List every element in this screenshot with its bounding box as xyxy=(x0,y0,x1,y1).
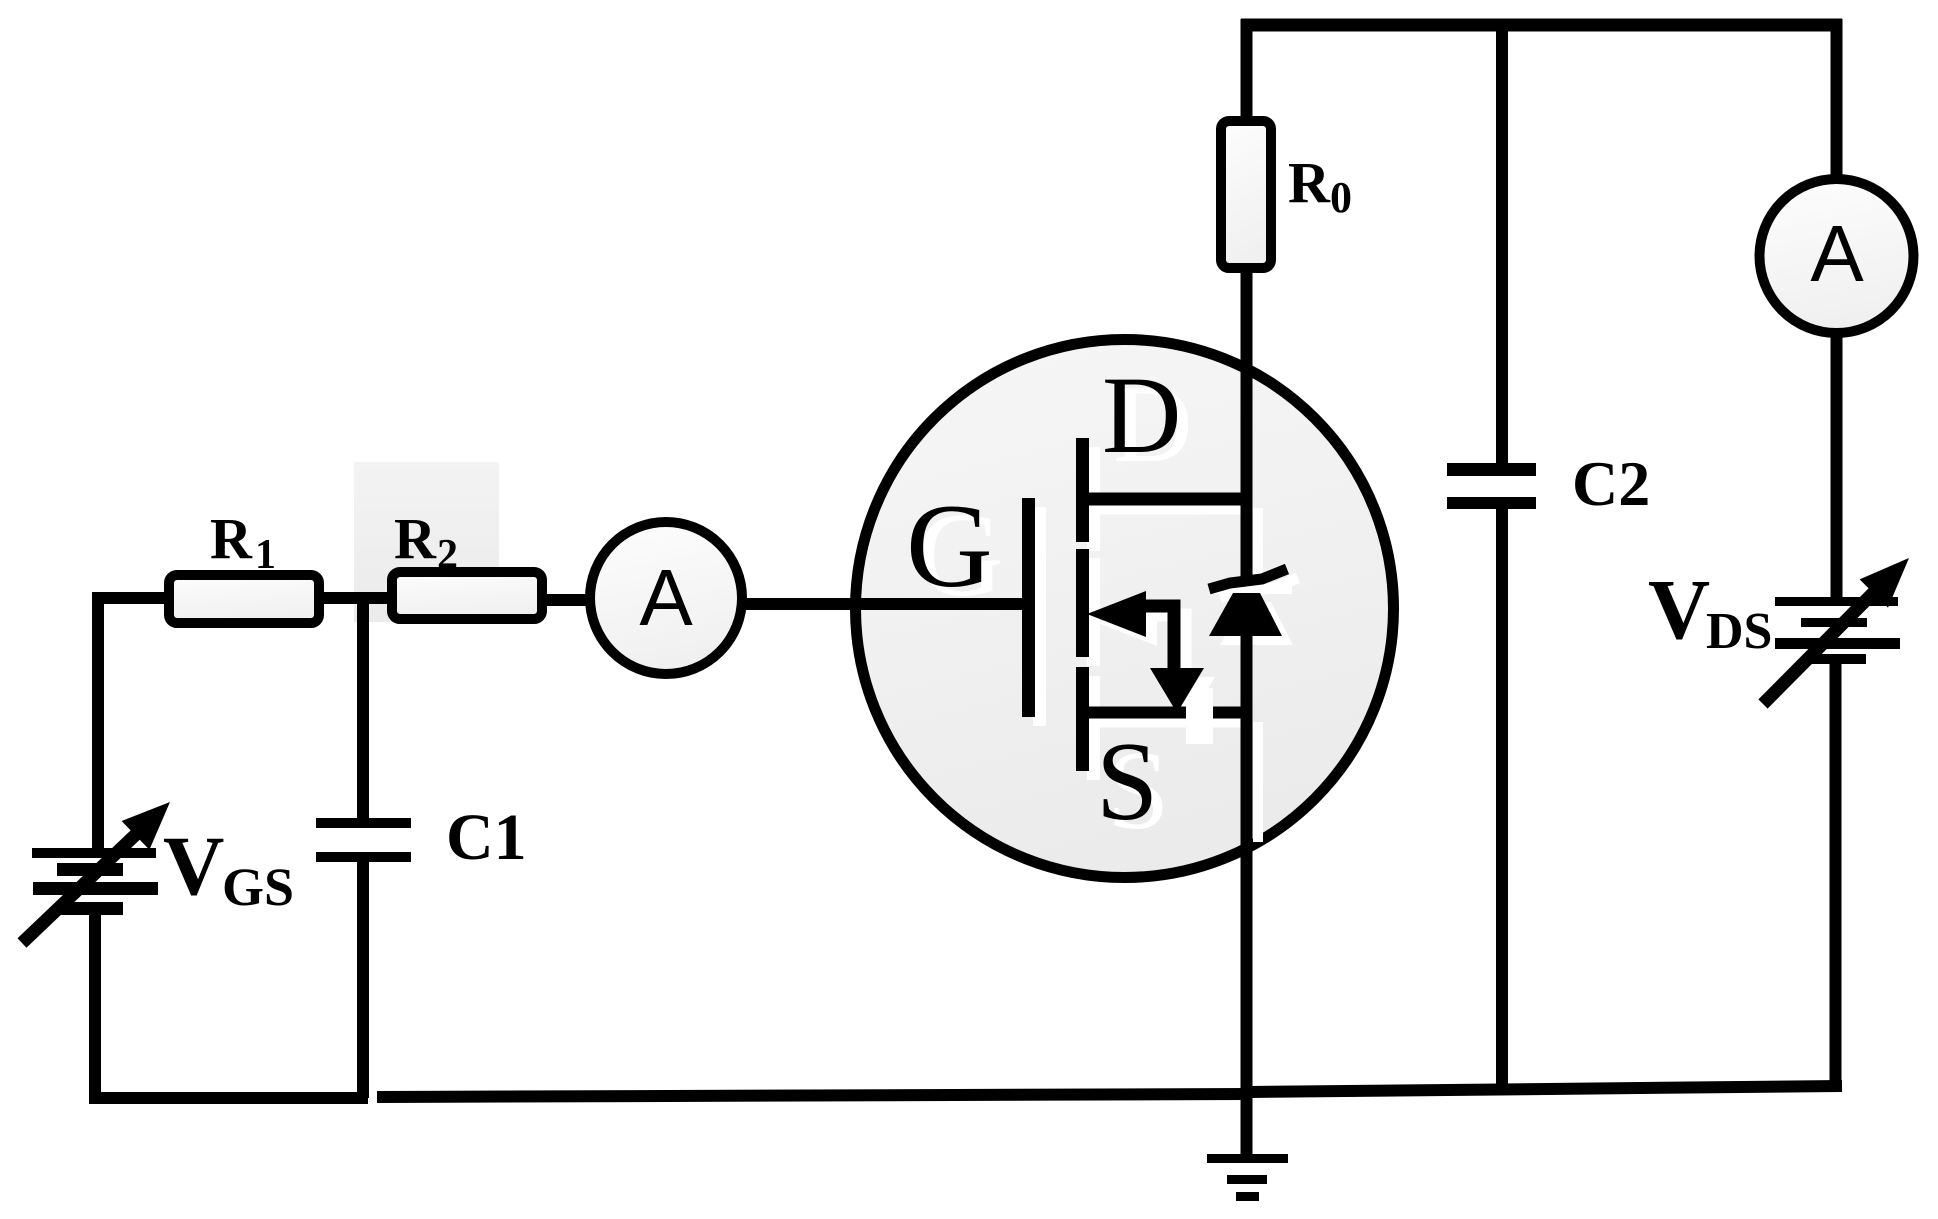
svg-text:D: D xyxy=(1102,354,1181,476)
svg-text:DS: DS xyxy=(1706,603,1772,660)
svg-text:A: A xyxy=(639,553,693,642)
svg-text:0: 0 xyxy=(1330,173,1352,222)
svg-text:GS: GS xyxy=(222,857,294,917)
svg-text:1: 1 xyxy=(255,532,276,578)
svg-text:R: R xyxy=(210,506,253,571)
svg-text:C1: C1 xyxy=(446,801,527,874)
svg-text:R: R xyxy=(1288,150,1331,215)
svg-text:C2: C2 xyxy=(1572,448,1650,519)
svg-text:A: A xyxy=(1810,209,1864,298)
svg-text:V: V xyxy=(1648,561,1710,657)
svg-text:R: R xyxy=(394,506,437,571)
svg-text:V: V xyxy=(163,819,224,913)
svg-text:2: 2 xyxy=(437,532,458,578)
svg-text:S: S xyxy=(1096,720,1158,844)
svg-text:G: G xyxy=(906,479,993,612)
